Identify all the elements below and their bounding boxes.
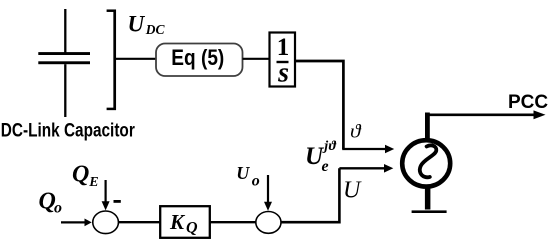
svg-text:PCC: PCC — [508, 92, 548, 113]
wire integrator to theta arrow (right then down) — [295, 61, 343, 149]
block K_Q — [160, 206, 210, 238]
wire K_Q to sum2 — [211, 221, 257, 223]
sine symbol inside AC source — [420, 145, 437, 177]
wire bracket to Eq(5) — [116, 58, 157, 60]
arrow U into AC source — [339, 164, 393, 173]
summing junction S1 — [93, 211, 119, 234]
summing junction S2 — [256, 212, 281, 234]
svg-text:Q: Q — [186, 219, 198, 236]
label Q_o — [39, 189, 63, 217]
svg-text:ϑ: ϑ — [350, 122, 362, 143]
svg-text:U: U — [236, 163, 250, 183]
svg-text:E: E — [88, 175, 98, 190]
block integrator 1/s — [270, 33, 296, 89]
svg-text:U: U — [128, 12, 146, 37]
label U_DC — [128, 12, 166, 37]
arrow Q_o into sum1 — [61, 219, 92, 227]
AC source G1 (converter symbol) — [402, 140, 450, 186]
svg-text:U: U — [343, 177, 362, 203]
block Eq (5) — [156, 44, 243, 77]
arrow theta into AC source — [342, 145, 394, 154]
svg-text:o: o — [252, 173, 260, 190]
wire Eq(5) to integrator — [243, 58, 271, 60]
arrow Q_E into sum1 — [102, 180, 110, 210]
bracket (U_DC measurement bracket) — [107, 10, 116, 111]
svg-text:Q: Q — [72, 161, 89, 187]
label Q_E — [72, 161, 99, 190]
label U_o — [236, 163, 259, 190]
wire sum2 to U arrow corner (right then up) — [281, 168, 339, 222]
svg-text:o: o — [54, 200, 62, 217]
label U_e^{j theta} — [305, 139, 337, 175]
wire source to PCC (up then right, with arrow) — [425, 110, 546, 140]
svg-text:Eq (5): Eq (5) — [171, 45, 224, 70]
arrow U_o into sum2 — [264, 175, 272, 211]
svg-text:DC: DC — [145, 22, 166, 37]
svg-text:jϑ: jϑ — [322, 139, 336, 154]
ground — [412, 186, 447, 213]
svg-text:DC-Link Capacitor: DC-Link Capacitor — [1, 119, 135, 141]
svg-text:e: e — [322, 158, 329, 175]
svg-text:K: K — [169, 210, 186, 234]
label minus sign at S1 — [114, 200, 121, 203]
wire sum1 to K_Q — [119, 221, 161, 223]
capacitor C1 (DC-link capacitor) — [38, 9, 90, 117]
svg-text:s: s — [277, 58, 289, 89]
